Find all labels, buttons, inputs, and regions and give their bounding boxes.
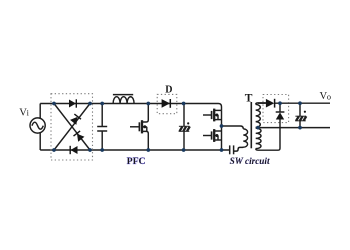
transformer primary winding [234,129,248,151]
mosfet Q3 lower SW switch [203,129,222,142]
node output diode [278,101,282,105]
node SW midpoint [220,124,224,128]
node C1 top [100,102,104,106]
transformer secondary upper winding [256,103,266,128]
wire output bottom rail [256,127,330,129]
node center tap [256,126,260,130]
capacitor C3 series resonant [230,145,234,154]
label SW circuit [230,156,270,166]
wire midpoint to transformer primary [222,126,244,129]
node bridge BL [52,148,56,152]
label PFC [127,156,146,167]
svg-text:i: i [27,109,30,118]
wire left riser top [39,104,41,120]
svg-text:o: o [327,92,331,101]
transformer core [250,102,252,148]
label T [245,93,253,105]
diode bridge bottom [70,146,77,154]
svg-text:SW circuit: SW circuit [230,156,270,166]
node C2 bottom [182,148,186,152]
ac source Vi [30,118,45,133]
diode bridge lower diagonal [73,131,84,142]
wire bridge diagonal TL-BR [54,104,90,151]
wire left riser bottom [39,132,41,150]
wire bridge diagonal BL-TR [54,104,90,151]
label Vo [320,91,332,102]
diode D5 output top [258,99,275,108]
diode D [162,99,171,108]
electrolytic capacitor C2 branch [179,104,190,151]
node C4 bottom [298,126,302,130]
node C1 bottom [100,148,104,152]
node dots [52,101,302,151]
svg-text:PFC: PFC [127,156,146,167]
wire bottom rail [40,149,229,151]
node Q1 source [146,148,150,152]
mosfet Q2 upper SW switch [203,109,222,122]
label Vi [19,107,29,118]
wire output top rail [275,102,330,104]
node bridge TR [88,102,92,106]
mosfet Q1 PFC switch [130,104,148,151]
boost diode D dashed box [157,94,177,113]
node Q1 drain [146,102,150,106]
wire SW drain-source column [221,110,223,150]
svg-text:T: T [245,93,253,105]
node C4 top [298,101,302,105]
diode bridge top [69,99,76,107]
inductor L1 with core bar [113,95,134,104]
bridge rectifier dashed box [51,94,93,160]
svg-text:D: D [165,84,172,95]
output rectifier dashed box [263,95,289,123]
node bridge TL [52,102,56,106]
wire top rail from source to SW corner [40,104,221,111]
diode D6 output vertical [256,103,285,150]
electrolytic capacitor C4 output [295,103,306,127]
diode bridge upper diagonal [70,114,81,125]
node SW source [220,148,224,152]
label D [165,84,172,95]
capacitor C1 after bridge [97,104,107,151]
node C2 top [182,102,186,106]
node bridge BR [88,148,92,152]
transformer secondary lower winding [256,128,261,148]
